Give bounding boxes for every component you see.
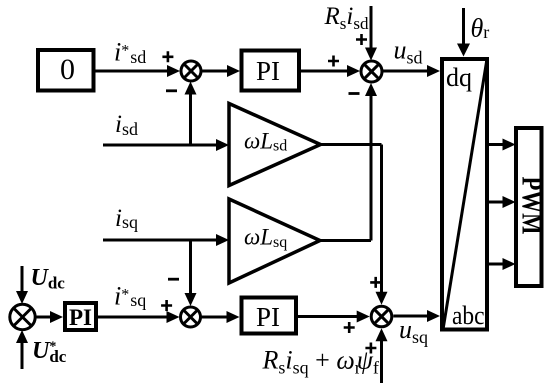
wire theta r into dq block top (457, 8, 470, 57)
wire isq feedback branch down to S4 (185, 240, 197, 306)
minus sign at S2 bottom input (349, 92, 360, 95)
summing junction S5 (dc-link voltage) (10, 304, 35, 329)
svg-text:dq: dq (446, 63, 472, 92)
svg-text:PI: PI (256, 302, 280, 332)
wire S4 to PI controller U3 (201, 311, 240, 323)
wire usq: S3 to abc block (393, 310, 440, 322)
plus sign at S4 left input (161, 300, 172, 311)
wire Udc into S5 top (16, 266, 28, 304)
wire usd: S2 to dq block (383, 65, 441, 77)
wire i*sq: U1 to junction S4 (96, 311, 180, 323)
svg-text:0: 0 (60, 53, 75, 86)
svg-text:PI: PI (256, 56, 280, 86)
wire dq-abc to PWM phase c (489, 258, 516, 270)
summing junction S2 (361, 61, 382, 82)
wire Udc* into S5 bottom (16, 330, 28, 369)
plus sign at S3 left input (344, 322, 355, 333)
wire G1 output across to vertical drop (321, 143, 382, 146)
wire Rs isq + wr psif feedforward into S3 bottom (376, 328, 388, 383)
wire omega Lsq isq up into S2 bottom (365, 83, 377, 241)
wire S5 to PI controller U1 (35, 311, 63, 323)
dq-abc transform block U4 (442, 59, 487, 330)
wire dq-abc to PWM phase b (489, 196, 516, 208)
wire S1 to PI controller U2 (202, 65, 241, 77)
minus sign at S4 top input (168, 278, 179, 281)
gain block G1 omega Lsd (229, 104, 321, 186)
wire isq input to gain block G2 (103, 234, 229, 246)
wire dq-abc to PWM phase a (489, 139, 516, 151)
block B1 value 0 (38, 50, 94, 91)
summing junction S1 (181, 61, 201, 81)
gain block G2 omega Lsq (229, 199, 320, 283)
wire omega Lsd isd down into S3 top (376, 145, 388, 305)
PI controller U2 (d-axis current) (242, 51, 300, 91)
svg-text:PWM: PWM (516, 177, 547, 235)
wire G2 output across to vertical rise (320, 239, 371, 242)
plus sign at S1 left input (162, 51, 173, 62)
wire U2 to junction S2 (299, 65, 360, 77)
plus sign at S3 bottom input (365, 343, 376, 354)
wire Rs isd feedforward into S2 top (365, 6, 377, 61)
svg-text:abc: abc (452, 301, 485, 330)
svg-text:PI: PI (69, 305, 92, 330)
wire i*sd: B1 to junction S1 (95, 65, 180, 77)
wire U3 to junction S3 (296, 311, 370, 323)
PI controller U3 (q-axis current) (242, 298, 297, 334)
minus sign at S1 bottom input (166, 89, 177, 92)
plus sign at S2 top input (356, 34, 367, 45)
plus sign at S3 top input (370, 277, 381, 288)
PWM block U5 (516, 128, 547, 286)
summing junction S4 (181, 307, 201, 327)
wire isd input to gain block G1 (103, 139, 229, 151)
PI controller U1 (voltage loop) (65, 303, 96, 330)
wire isd feedback branch up to S1 (185, 82, 197, 146)
plus sign at S2 left input (328, 56, 339, 67)
summing junction S3 (371, 306, 392, 327)
